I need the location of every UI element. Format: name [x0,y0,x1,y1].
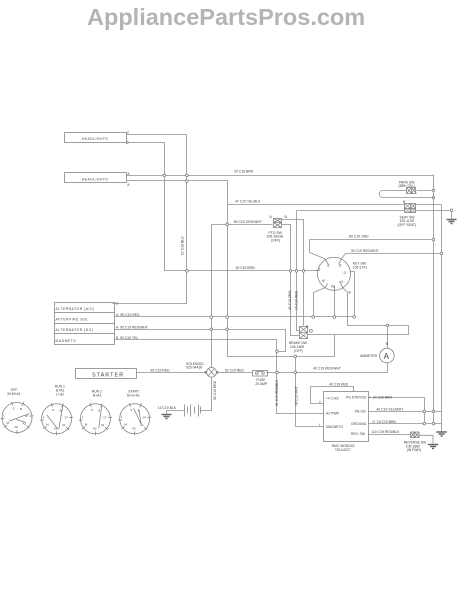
svg-text:ALTERNATOR (A/C): ALTERNATOR (A/C) [56,307,95,311]
svg-text:A2: A2 [93,426,97,430]
svg-text:105-1741: 105-1741 [353,265,367,269]
svg-text:A 96 C19 RED/WHT: A 96 C19 RED/WHT [116,325,148,329]
svg-text:B+A1: B+A1 [93,393,102,397]
svg-text:51 C19 RED/BLK: 51 C19 RED/BLK [275,379,279,406]
svg-text:20 AMP: 20 AMP [255,382,268,386]
svg-text:30 C19 BRN: 30 C19 BRN [236,266,256,270]
svg-text:M: M [322,279,325,283]
svg-text:AMMETER: AMMETER [360,354,378,358]
svg-text:HEADLIGHTS: HEADLIGHTS [82,177,108,181]
svg-text:925-04439: 925-04439 [186,366,202,370]
svg-text:20 C18 BLU: 20 C18 BLU [181,236,185,255]
svg-text:A1: A1 [101,423,105,427]
svg-text:D 15 C19 BRN: D 15 C19 BRN [373,420,397,424]
svg-text:30 C19 RED/WHT: 30 C19 RED/WHT [351,249,379,253]
svg-text:S: S [130,408,132,412]
svg-text:15 C19 RED: 15 C19 RED [295,290,299,310]
svg-text:2: 2 [127,131,129,135]
svg-text:A: A [384,352,390,361]
svg-text:110 C19 RED/BLK: 110 C19 RED/BLK [371,430,400,434]
svg-text:B 90 C19 YEL: B 90 C19 YEL [116,336,138,340]
svg-text:REV. SW: REV. SW [351,432,366,436]
svg-text:A2 PWR: A2 PWR [326,412,340,416]
svg-text:AppliancePartsPros.com: AppliancePartsPros.com [87,4,365,30]
svg-text:GROUND: GROUND [351,422,367,426]
svg-text:92 C19 RED: 92 C19 RED [225,368,245,372]
svg-text:PG STR/VCE: PG STR/VCE [346,396,367,400]
svg-text:J: J [319,400,321,404]
svg-text:(IN FWD): (IN FWD) [407,448,421,452]
svg-text:S: S [13,407,15,411]
svg-text:(OFF): (OFF) [294,349,303,353]
svg-text:47 C19 YEL/BLK: 47 C19 YEL/BLK [235,199,261,203]
svg-text:(OFF): (OFF) [271,238,280,242]
svg-text:A2: A2 [15,425,19,429]
svg-text:S: S [327,264,329,268]
svg-text:725-04227: 725-04227 [335,448,351,452]
svg-text:B: B [98,408,100,412]
svg-text:L: L [319,267,321,271]
svg-text:90 C19 RED: 90 C19 RED [150,369,170,373]
svg-text:MAGNETO: MAGNETO [326,425,343,429]
svg-text:MAGNETO: MAGNETO [56,339,77,343]
svg-text:B+M+A1: B+M+A1 [8,392,21,396]
svg-text:92 C19 RED: 92 C19 RED [213,380,217,400]
svg-text:ALTERNATOR (DC): ALTERNATOR (DC) [56,328,94,332]
svg-text:I: I [319,423,320,427]
svg-text:+V CHG: +V CHG [326,397,339,401]
svg-text:(OFF SEAT): (OFF SEAT) [398,223,417,227]
svg-text:S: S [52,408,54,412]
svg-text:L+A2: L+A2 [56,393,64,397]
svg-text:B: B [60,408,62,412]
svg-text:A2: A2 [331,285,335,289]
svg-text:B: B [20,407,22,411]
svg-text:PB GN: PB GN [355,410,366,414]
svg-text:A1: A1 [62,423,66,427]
svg-text:80 C19 ORG/WHT: 80 C19 ORG/WHT [234,220,262,224]
svg-text:HEADLIGHTS: HEADLIGHTS [82,137,108,141]
svg-text:20 C18 BRN: 20 C18 BRN [234,169,254,173]
svg-text:A2: A2 [132,426,136,430]
svg-text:S: S [91,408,93,412]
svg-text:A 80 C19 RED: A 80 C19 RED [116,313,140,317]
svg-text:STARTER: STARTER [92,373,124,379]
svg-text:40 C19 ORG: 40 C19 ORG [288,290,292,310]
svg-text:+ 20 C19 BRN: + 20 C19 BRN [369,395,392,399]
svg-text:40 C19 RED/WHT: 40 C19 RED/WHT [313,366,341,370]
svg-text:B: B [339,264,341,268]
svg-text:13 C19 BLK: 13 C19 BLK [158,406,177,410]
svg-text:AFTERFIRE SOL.: AFTERFIRE SOL. [56,318,91,322]
svg-text:B+S+A1: B+S+A1 [127,393,140,397]
svg-text:80 C19 ORG: 80 C19 ORG [349,235,369,239]
svg-text:(BRK ON.): (BRK ON.) [399,184,415,188]
svg-text:40 C19 RED: 40 C19 RED [329,383,349,387]
svg-text:08 C19 WHT: 08 C19 WHT [294,386,298,406]
svg-text:A1: A1 [339,280,343,284]
svg-text:40 C19 YEL/WHT: 40 C19 YEL/WHT [376,408,403,412]
